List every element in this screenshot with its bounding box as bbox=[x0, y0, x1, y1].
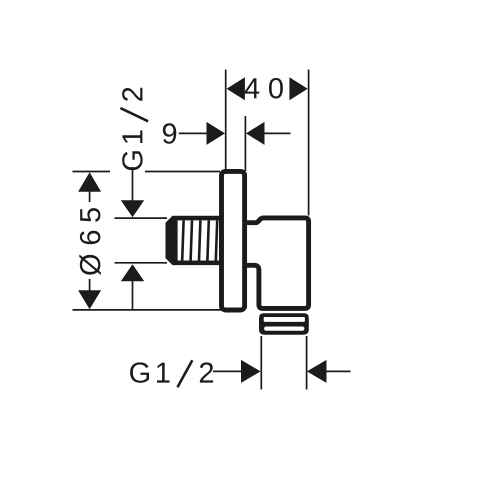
wire: bottom-left extension line bbox=[260, 336, 262, 390]
label: slash of rotated G1/2 bbox=[120, 108, 148, 121]
arrowhead: 9-dim left (points right) bbox=[207, 122, 226, 145]
component: hose connector nut (filled with slots) bbox=[259, 313, 309, 335]
arrowhead: D65 top (points up) bbox=[78, 172, 101, 192]
wire: D65 dimension line upper segment bbox=[89, 192, 91, 203]
component: thread nipple interior bbox=[178, 220, 219, 260]
wire: 9-dim right extension line bbox=[244, 116, 246, 171]
wire: bottom-right extension line bbox=[306, 336, 308, 390]
component: thread nipple (filled outline) bbox=[166, 216, 221, 265]
component: elbow body outline bbox=[244, 218, 309, 309]
arrowhead: D65 bottom (points down) bbox=[78, 290, 101, 309]
wire: nipple bottom edge extension bbox=[115, 262, 168, 264]
component: nut face slot (white) bbox=[264, 327, 304, 331]
wire: 40-dim left extension line bbox=[225, 70, 227, 170]
component: thread hatch lines bbox=[182, 220, 217, 260]
arrowhead: 40-dim right (points right) bbox=[289, 77, 307, 100]
wire: 40-dim right extension line bbox=[308, 70, 310, 216]
component: wall flange (escutcheon) bbox=[222, 171, 245, 310]
arrowhead: bottom G1/2 right (points left) bbox=[307, 360, 327, 383]
arrowhead: 9-dim right (points left) bbox=[246, 122, 265, 145]
wire: bottom G1/2 dim left tail bbox=[213, 370, 242, 372]
arrowhead: bottom G1/2 left (points right) bbox=[241, 360, 261, 383]
arrowhead: 40-dim left (points left) bbox=[227, 77, 245, 100]
label: G1/2 (bottom connection spec) bbox=[130, 362, 213, 383]
wire: bottom G1/2 dim right tail bbox=[326, 370, 351, 372]
wire: D65 bottom extension line bbox=[73, 309, 222, 311]
label: D65 rotated (flange diameter) bbox=[79, 208, 101, 275]
label: 9 (offset dimension value) bbox=[163, 123, 176, 144]
label: G1/2 rotated (thread spec, left) bbox=[122, 88, 143, 171]
label: 40 (top dimension value) bbox=[245, 78, 283, 99]
wire: D65 top extension line (left part) bbox=[73, 171, 111, 173]
wire: D65 top extension line (right part) bbox=[145, 171, 220, 173]
wire: 9-dim right tail bbox=[265, 132, 291, 134]
wire: nipple top edge extension bbox=[115, 217, 168, 219]
component: groove between washer and nut (white slot) bbox=[264, 317, 305, 322]
arrowhead: G1/2-left top (points down) bbox=[121, 200, 144, 217]
arrowhead: G1/2-left bottom (points up) bbox=[121, 264, 144, 281]
wire: D65 dimension line lower segment bbox=[89, 279, 91, 291]
label: slash of bottom G1/2 bbox=[178, 360, 193, 387]
wire: 9-dim left tail bbox=[179, 132, 207, 134]
wire: G1/2-left dimension line upper segment bbox=[132, 167, 134, 201]
wire: G1/2-left dimension line lower segment bbox=[132, 281, 134, 310]
